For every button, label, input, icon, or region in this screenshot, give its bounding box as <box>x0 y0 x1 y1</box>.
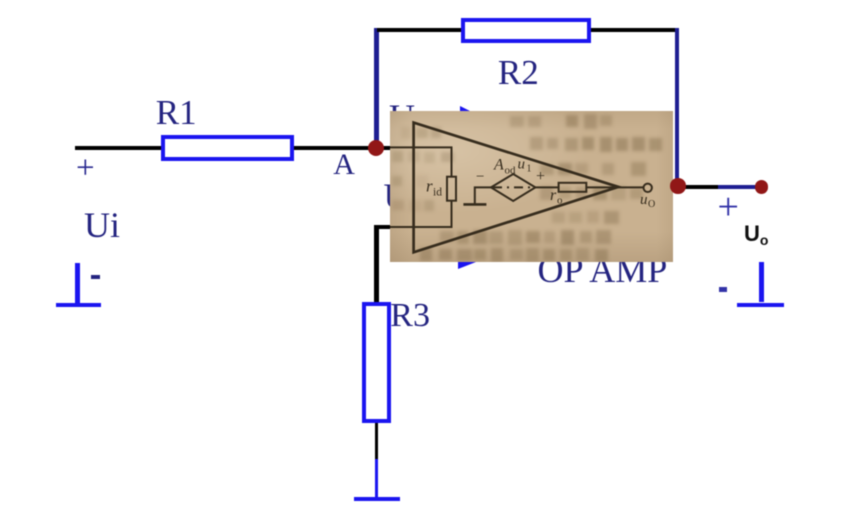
svg-text:u: u <box>517 156 525 172</box>
svg-text:r: r <box>550 187 557 204</box>
svg-text:o: o <box>557 194 563 206</box>
svg-text:+: + <box>536 168 545 185</box>
svg-text:id: id <box>433 186 442 198</box>
svg-text:od: od <box>504 164 516 176</box>
svg-text:−: − <box>476 169 484 185</box>
svg-text:O: O <box>648 199 655 210</box>
svg-text:1: 1 <box>526 163 531 174</box>
svg-text:r: r <box>426 176 433 195</box>
svg-text:u: u <box>640 192 648 208</box>
svg-text:A: A <box>493 156 504 173</box>
